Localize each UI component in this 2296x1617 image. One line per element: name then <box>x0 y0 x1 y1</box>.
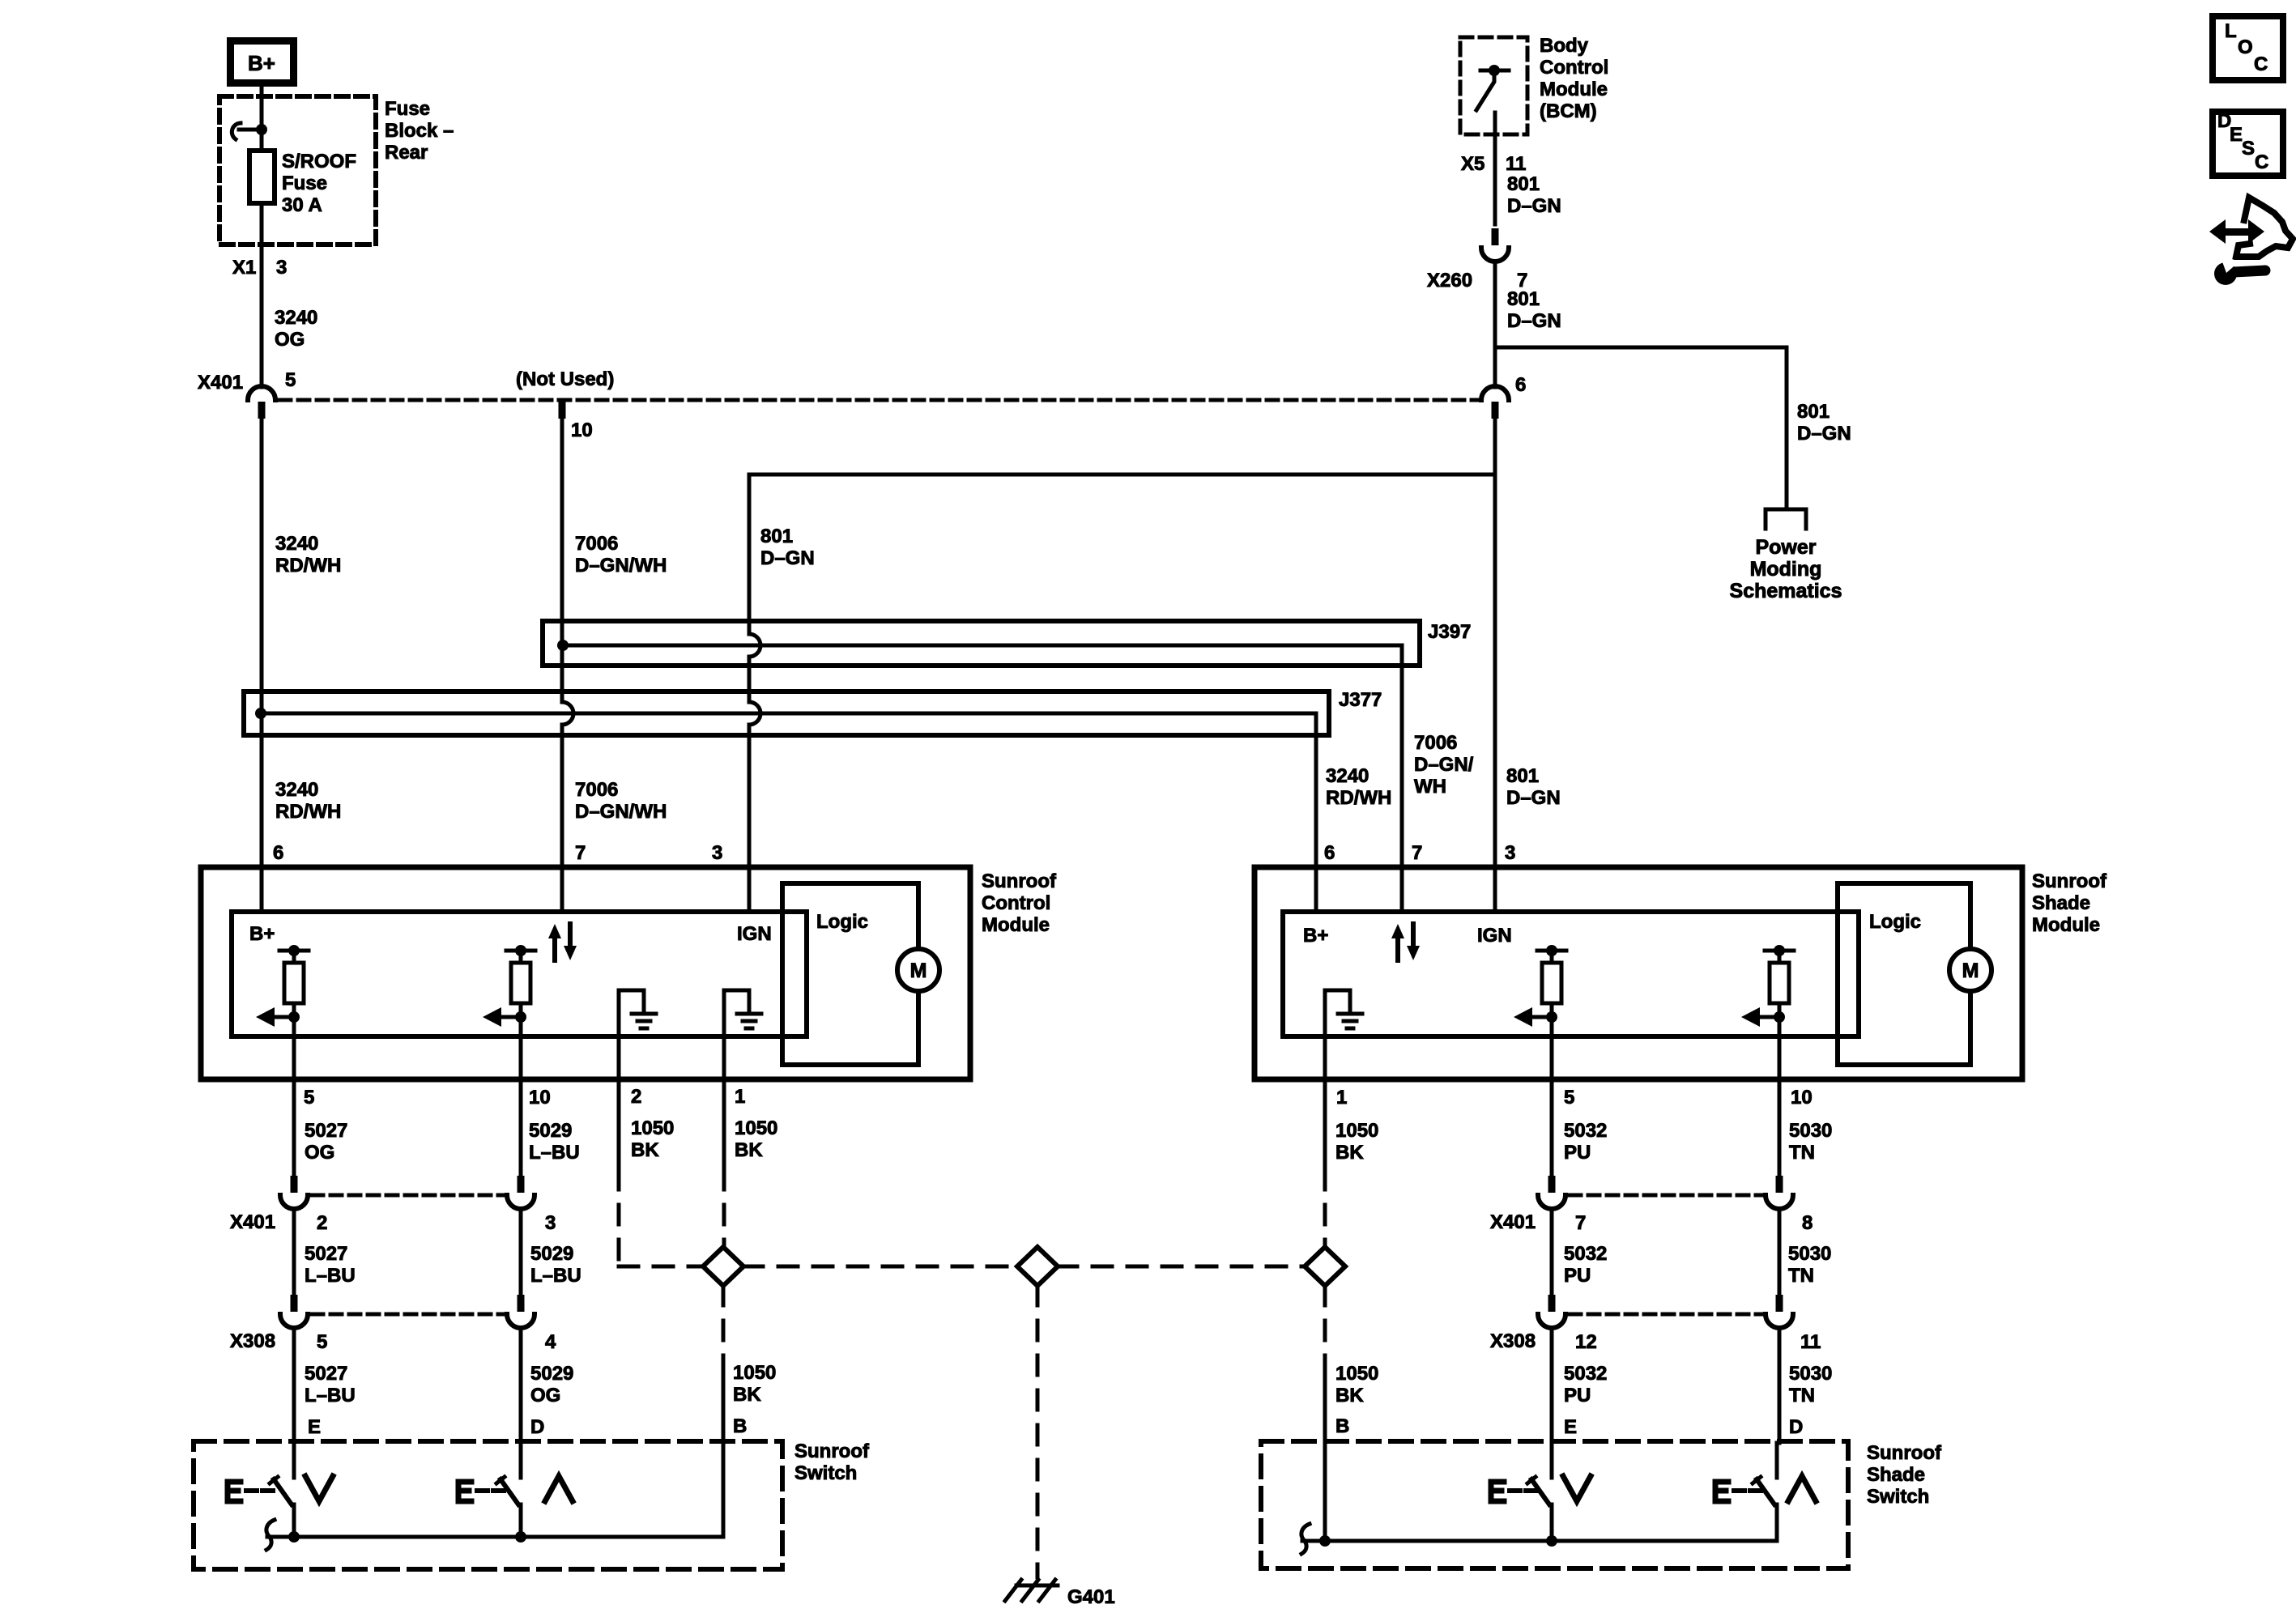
svg-text:D–GN/: D–GN/ <box>1414 754 1474 776</box>
svg-text:Power: Power <box>1755 536 1816 559</box>
connector X401 pin 2 terminal <box>280 1176 308 1209</box>
svg-text:10: 10 <box>529 1087 551 1108</box>
svg-text:801: 801 <box>1797 401 1830 423</box>
svg-text:RD/WH: RD/WH <box>1326 787 1391 809</box>
label circuit 3240 RD/WH (upper) <box>275 533 341 577</box>
pin 11 label <box>1800 1331 1821 1353</box>
svg-text:L–BU: L–BU <box>529 1142 580 1164</box>
svg-text:801: 801 <box>1506 765 1539 787</box>
wire 1050 BK splice to shade switch B <box>1323 1286 1327 1541</box>
double arrow icon <box>2209 219 2264 244</box>
svg-text:3240: 3240 <box>1326 765 1369 787</box>
svg-text:Rear: Rear <box>385 142 428 164</box>
svg-text:Block –: Block – <box>385 120 454 142</box>
Body Control Module dashed box <box>1460 37 1527 134</box>
DESC reference box <box>2213 110 2283 176</box>
connector X308 pin 12 terminal <box>1538 1295 1565 1328</box>
svg-text:E: E <box>1564 1416 1577 1438</box>
label B+ (shade module) <box>1303 925 1328 947</box>
dashed wire center splice to right splice <box>1058 1265 1305 1269</box>
svg-text:1: 1 <box>735 1086 745 1108</box>
label circuit 5029 L-BU <box>529 1120 580 1164</box>
label circuit 3240 RD/WH (lower left) <box>275 779 341 823</box>
label Fuse Block - Rear <box>385 98 454 164</box>
pin letter D (shade switch) <box>1789 1416 1803 1438</box>
svg-text:5029: 5029 <box>529 1120 572 1142</box>
svg-text:Sunroof: Sunroof <box>1867 1442 1942 1464</box>
wire branch to power moding schematics <box>1495 347 1787 509</box>
connector X308 dashed row (left) <box>312 1313 504 1317</box>
svg-text:OG: OG <box>530 1385 560 1406</box>
pin 5 label <box>285 369 296 391</box>
label circuit 5029 L-BU (X401-X308) <box>530 1243 581 1287</box>
connector X308 pin 11 terminal <box>1766 1295 1793 1328</box>
svg-text:M: M <box>910 960 927 982</box>
svg-text:Body: Body <box>1540 35 1589 57</box>
svg-text:B+: B+ <box>249 923 275 945</box>
svg-text:12: 12 <box>1575 1331 1597 1353</box>
label circuit 5032 PU (X401-X308) <box>1564 1243 1607 1287</box>
connector X401 pin 5 terminal <box>248 386 275 419</box>
svg-text:5030: 5030 <box>1789 1120 1832 1142</box>
shade switch up contact <box>1753 1443 1777 1541</box>
svg-text:7006: 7006 <box>575 779 618 801</box>
svg-text:Logic: Logic <box>816 911 868 933</box>
wrench icon <box>2214 255 2265 285</box>
svg-text:PU: PU <box>1564 1142 1591 1164</box>
svg-text:3240: 3240 <box>275 533 318 555</box>
svg-text:6: 6 <box>1515 374 1526 396</box>
pin 7 label (shade module) <box>1412 842 1422 864</box>
svg-text:OG: OG <box>305 1142 334 1164</box>
splice pack J397 <box>543 621 1420 912</box>
pin 11 label <box>1506 153 1526 175</box>
svg-text:O: O <box>2238 36 2253 58</box>
svg-text:Module: Module <box>2032 914 2100 936</box>
position sensor resistor pin 5 (shade module) <box>1514 945 1566 1027</box>
wire BCM X5 pin 11 (circuit 801 D-GN) <box>1493 113 1497 224</box>
svg-text:TN: TN <box>1788 1265 1814 1287</box>
svg-text:X401: X401 <box>1490 1211 1536 1233</box>
svg-text:X401: X401 <box>230 1211 275 1233</box>
wire X308-11 to shade switch D <box>1778 1328 1782 1443</box>
svg-text:D–GN: D–GN <box>1507 310 1561 332</box>
svg-text:C: C <box>2255 151 2268 173</box>
svg-text:Switch: Switch <box>1867 1486 1929 1508</box>
label circuit 7006 D-GN/WH (upper) <box>575 533 667 577</box>
svg-text:Sunroof: Sunroof <box>2032 870 2107 892</box>
connector end view icon (hand outline) <box>2236 198 2293 257</box>
svg-text:3240: 3240 <box>275 307 317 329</box>
shade switch common wire <box>1302 1535 1777 1547</box>
svg-text:B+: B+ <box>248 51 275 75</box>
svg-text:801: 801 <box>760 526 793 547</box>
svg-text:5027: 5027 <box>305 1120 347 1142</box>
svg-text:10: 10 <box>571 419 593 441</box>
svg-text:S/ROOF: S/ROOF <box>282 151 356 172</box>
svg-text:7006: 7006 <box>575 533 618 555</box>
up-down motor arrows (shade module) <box>1391 924 1420 960</box>
pin 6 label (control module) <box>273 842 283 864</box>
svg-text:X308: X308 <box>1490 1330 1536 1352</box>
svg-text:Control: Control <box>982 892 1050 914</box>
connector X308 dashed row (right) <box>1570 1313 1762 1317</box>
connector X401 pin 7 terminal <box>1538 1176 1565 1209</box>
connector X308 pin 5 terminal <box>280 1295 308 1328</box>
wire 1050 BK pin 1 (shade module ground) <box>1325 990 1378 1170</box>
svg-text:E: E <box>308 1416 321 1438</box>
svg-text:6: 6 <box>273 842 283 864</box>
label J377 <box>1339 689 1382 711</box>
svg-text:7006: 7006 <box>1414 732 1457 754</box>
svg-text:7: 7 <box>575 842 586 864</box>
label circuit 7006 D-GN/WH (lower left) <box>575 779 667 823</box>
label circuit 801 D-GN (below X260) <box>1507 288 1561 332</box>
wire X401-2 to X308-5 <box>292 1209 296 1295</box>
connector X401 pin 6 terminal <box>1481 386 1509 419</box>
sunroof switch common wire <box>267 1531 722 1543</box>
svg-text:(Not Used): (Not Used) <box>516 368 614 390</box>
svg-text:4: 4 <box>545 1331 556 1353</box>
svg-text:L–BU: L–BU <box>305 1265 356 1287</box>
sunroof switch down contact <box>270 1443 294 1537</box>
label Power Moding Schematics <box>1730 536 1842 602</box>
pin letter B (sunroof switch) <box>733 1415 747 1437</box>
position sensor resistor pin 5 (control module) <box>256 945 309 1027</box>
svg-text:5: 5 <box>317 1331 327 1353</box>
label J397 <box>1428 621 1471 643</box>
svg-text:6: 6 <box>1324 842 1335 864</box>
svg-text:BK: BK <box>733 1384 761 1406</box>
wire X308-5 to sunroof switch E <box>292 1328 296 1443</box>
wire X260 to X401 pin 6 <box>1493 262 1497 387</box>
wire 5030 TN pin 10 to X401-8 <box>1779 1017 1832 1176</box>
svg-text:S: S <box>2242 138 2255 160</box>
svg-text:2: 2 <box>631 1086 641 1108</box>
svg-text:5029: 5029 <box>530 1363 573 1385</box>
label circuit 801 D-GN (right module) <box>1506 765 1561 809</box>
svg-text:PU: PU <box>1564 1265 1591 1287</box>
sunroof motor M <box>897 949 939 991</box>
svg-text:5: 5 <box>285 369 296 391</box>
pin 6 label (shade module) <box>1324 842 1335 864</box>
svg-text:X5: X5 <box>1461 153 1485 175</box>
svg-text:Shade: Shade <box>1867 1464 1925 1486</box>
wire 7006 D-GN/WH from pin 10 stub to module pin 7 <box>562 419 573 912</box>
svg-text:D–GN: D–GN <box>1506 787 1561 809</box>
dashed wire left splice to center splice <box>743 1265 1017 1269</box>
label Sunroof Switch <box>794 1440 870 1484</box>
pin 3 label (control module) <box>712 842 722 864</box>
label circuit 801 D-GN (power moding branch) <box>1797 401 1851 445</box>
sunroof control module connector block <box>232 912 807 1036</box>
label S/ROOF Fuse 30 A <box>282 151 356 216</box>
label circuit 7006 D-GN/WH (right) <box>1414 732 1474 798</box>
label B+ (control module) <box>249 923 275 945</box>
wire 1050 BK pin 1 (control module ground) <box>724 990 777 1170</box>
wire 1050 BK splice to sunroof switch B <box>722 1286 726 1537</box>
pin 4 label (X308) <box>545 1331 556 1353</box>
svg-text:B: B <box>1335 1415 1349 1437</box>
svg-text:Module: Module <box>1540 79 1608 100</box>
svg-text:TN: TN <box>1789 1142 1815 1164</box>
fuse F - S/ROOF 30 A element <box>249 151 275 203</box>
BCM internal switch <box>1476 65 1509 110</box>
svg-text:3: 3 <box>1505 842 1515 864</box>
svg-text:X260: X260 <box>1427 270 1472 291</box>
label circuit 1050 BK (switch B left) <box>733 1362 776 1406</box>
pin 7 label (right) <box>1575 1212 1586 1234</box>
sunroof shade switch dashed box <box>1261 1441 1848 1568</box>
svg-text:TN: TN <box>1789 1385 1815 1406</box>
power node B+ (battery positive) box <box>231 41 294 83</box>
pin 7 label (X260) <box>1517 270 1527 291</box>
pin 3 label <box>545 1212 556 1234</box>
svg-text:3: 3 <box>545 1212 556 1234</box>
svg-text:BK: BK <box>735 1139 763 1161</box>
label circuit 1050 BK (switch B right) <box>1335 1363 1378 1406</box>
svg-text:5032: 5032 <box>1564 1243 1607 1265</box>
svg-text:D–GN/WH: D–GN/WH <box>575 555 667 577</box>
label circuit 5030 TN (to shade switch) <box>1789 1363 1832 1406</box>
svg-text:5: 5 <box>1564 1087 1574 1108</box>
label Body Control Module (BCM) <box>1540 35 1608 122</box>
switch actuator E link (shade down) <box>1491 1482 1536 1501</box>
svg-text:Control: Control <box>1540 57 1608 79</box>
svg-text:Fuse: Fuse <box>385 98 430 120</box>
svg-text:5027: 5027 <box>305 1243 347 1265</box>
wire 801 D-GN down to sunroof shade module pin 3 <box>1493 419 1497 912</box>
up chevron (shade switch) <box>1788 1476 1816 1501</box>
svg-text:801: 801 <box>1507 173 1540 195</box>
svg-text:D–GN: D–GN <box>1797 423 1851 445</box>
label Logic (control module) <box>816 911 868 933</box>
pin 5 label (X308) <box>317 1331 327 1353</box>
svg-text:M: M <box>1962 960 1979 982</box>
wire 5029 L-BU pin 10 to X401-3 <box>519 1017 523 1176</box>
label circuit 3240 RD/WH (right) <box>1326 765 1391 809</box>
wire X308-4 to sunroof switch D <box>519 1328 523 1443</box>
label G401 <box>1067 1586 1115 1608</box>
label Sunroof Shade Switch <box>1867 1442 1942 1508</box>
svg-text:3: 3 <box>712 842 722 864</box>
connector X401 dashed row (left) <box>312 1194 504 1198</box>
svg-text:5032: 5032 <box>1564 1363 1607 1385</box>
up chevron (sunroof switch) <box>545 1476 573 1501</box>
svg-text:L–BU: L–BU <box>530 1265 581 1287</box>
svg-text:5032: 5032 <box>1564 1120 1607 1142</box>
pin 3 label <box>276 257 287 279</box>
svg-text:B: B <box>733 1415 747 1437</box>
wire 801 D-GN left branch down to sunroof control module pin 3 <box>749 474 760 912</box>
internal ground pin 2 (control module) <box>619 990 656 1036</box>
svg-text:(BCM): (BCM) <box>1540 100 1597 122</box>
down chevron (shade switch) <box>1563 1476 1591 1501</box>
wire 801 D-GN horizontal to left branch <box>749 473 1495 477</box>
connector X401 pin 3 terminal <box>507 1176 535 1209</box>
wire B+ to fuse clip <box>260 87 264 151</box>
svg-text:C: C <box>2254 53 2268 75</box>
label X401 (right row) <box>1490 1211 1536 1233</box>
ground splice (right diamond) <box>1305 1247 1345 1286</box>
ground splice (left diamond) <box>703 1247 743 1286</box>
label circuit 5029 OG (to switch) <box>530 1363 573 1406</box>
svg-text:X308: X308 <box>230 1330 275 1352</box>
sunroof control module outer box <box>201 867 970 1079</box>
svg-text:D–GN/WH: D–GN/WH <box>575 801 667 823</box>
svg-text:5: 5 <box>304 1087 314 1108</box>
logic block (shade module) <box>1838 883 1970 1065</box>
wire 3240 RD/WH from X401-5 to module pin 6 <box>260 419 264 912</box>
wire 1050 BK pin 2 (control module ground) <box>619 990 674 1170</box>
position sensor resistor pin 10 (control module) <box>483 945 535 1027</box>
ground splice (center diamond) <box>1017 1247 1058 1286</box>
svg-text:IGN: IGN <box>737 923 772 945</box>
label IGN (shade module) <box>1477 925 1512 947</box>
svg-text:J397: J397 <box>1428 621 1471 643</box>
svg-text:11: 11 <box>1800 1331 1821 1353</box>
wire X308-12 to shade switch E <box>1550 1328 1554 1443</box>
svg-text:X401: X401 <box>198 372 243 394</box>
label X401 <box>198 372 243 394</box>
label circuit 5030 TN (X401-X308) <box>1788 1243 1831 1287</box>
svg-text:BK: BK <box>631 1139 659 1161</box>
svg-text:5030: 5030 <box>1789 1363 1832 1385</box>
pin 5 number (below module) <box>304 1087 314 1108</box>
connector X401 pin 8 terminal <box>1766 1176 1793 1209</box>
label X1 <box>232 257 256 279</box>
dashed ground wire from control module pin 2 to splice <box>619 1170 701 1266</box>
svg-text:10: 10 <box>1791 1087 1813 1108</box>
connector X401 dashed row (right) <box>1570 1194 1762 1198</box>
svg-text:1050: 1050 <box>733 1362 776 1384</box>
pin letter D (sunroof switch) <box>530 1416 544 1438</box>
shade switch detent hook <box>1301 1524 1310 1554</box>
svg-text:OG: OG <box>275 329 305 351</box>
ground G401 symbol <box>1005 1580 1058 1601</box>
wire X401-8 to X308-11 <box>1778 1209 1782 1295</box>
off-page reference to Power Moding Schematics <box>1766 509 1806 529</box>
pin 12 label <box>1575 1331 1597 1353</box>
label Sunroof Shade Module <box>2032 870 2107 936</box>
switch actuator E link (down) <box>228 1482 273 1501</box>
label circuit 801 D-GN (above X260) <box>1507 173 1561 217</box>
svg-text:3: 3 <box>276 257 287 279</box>
svg-text:1050: 1050 <box>735 1117 777 1139</box>
svg-text:L: L <box>2225 20 2237 42</box>
svg-text:30 A: 30 A <box>282 194 322 216</box>
svg-text:D: D <box>1789 1416 1803 1438</box>
svg-text:Shade: Shade <box>2032 892 2090 914</box>
svg-text:E: E <box>2230 124 2243 146</box>
svg-text:Schematics: Schematics <box>1730 580 1842 602</box>
svg-text:G401: G401 <box>1067 1586 1115 1608</box>
wire fuse to connector X401 pin 5 (circuit 3240 OG) <box>260 203 264 387</box>
switch actuator E link (up) <box>458 1482 504 1501</box>
svg-text:X1: X1 <box>232 257 256 279</box>
label circuit 5032 PU (to shade switch) <box>1564 1363 1607 1406</box>
fuse block rear dashed box <box>219 96 376 245</box>
pin letter E (shade switch) <box>1564 1416 1577 1438</box>
svg-text:RD/WH: RD/WH <box>275 801 341 823</box>
pin letter E (sunroof switch) <box>308 1416 321 1438</box>
svg-text:D–GN: D–GN <box>1507 195 1561 217</box>
svg-text:1: 1 <box>1336 1087 1347 1108</box>
shade motor M <box>1949 949 1991 991</box>
svg-text:Sunroof: Sunroof <box>794 1440 870 1462</box>
svg-text:D: D <box>530 1416 544 1438</box>
svg-text:1050: 1050 <box>1335 1363 1378 1385</box>
dashed wire from shade module pin 1 to right splice <box>1323 1170 1327 1245</box>
svg-text:BK: BK <box>1335 1142 1364 1164</box>
label Logic (shade module) <box>1869 911 1921 933</box>
label circuit 3240 OG <box>275 307 317 351</box>
svg-text:J377: J377 <box>1339 689 1382 711</box>
svg-text:1050: 1050 <box>631 1117 674 1139</box>
shade switch down contact <box>1527 1443 1552 1541</box>
label circuit 5027 L-BU (to switch) <box>305 1363 356 1406</box>
svg-text:3240: 3240 <box>275 779 318 801</box>
svg-text:Sunroof: Sunroof <box>982 870 1057 892</box>
pin 3 label (shade module) <box>1505 842 1515 864</box>
up-down motor arrows (control module) <box>548 924 577 960</box>
sunroof switch dashed box <box>194 1441 782 1569</box>
svg-text:B+: B+ <box>1303 925 1328 947</box>
svg-text:Module: Module <box>982 914 1050 936</box>
wire 5027 OG pin 5 to X401-2 <box>292 1017 296 1176</box>
svg-text:WH: WH <box>1414 776 1446 798</box>
LOC reference box <box>2213 16 2283 80</box>
sunroof switch up contact <box>496 1443 521 1537</box>
label X260 <box>1427 270 1472 291</box>
fuse holder clip <box>232 123 267 139</box>
svg-text:2: 2 <box>317 1212 327 1234</box>
svg-text:IGN: IGN <box>1477 925 1512 947</box>
svg-text:7: 7 <box>1575 1212 1586 1234</box>
connector X308 pin 4 terminal <box>507 1295 535 1328</box>
svg-text:PU: PU <box>1564 1385 1591 1406</box>
not-used dashed row of connector X401 <box>279 368 1480 400</box>
svg-text:8: 8 <box>1802 1212 1813 1234</box>
svg-text:5027: 5027 <box>305 1363 347 1385</box>
wire X401-3 to X308-4 <box>519 1209 523 1295</box>
logic block (control module) <box>782 883 918 1065</box>
position sensor resistor pin 10 (shade module) <box>1741 945 1794 1027</box>
svg-text:L–BU: L–BU <box>305 1385 356 1406</box>
pin 6 label (X401) <box>1515 374 1526 396</box>
label X401 (bottom left row) <box>230 1211 275 1233</box>
connector X401 pin 10 stub (not used) <box>559 402 593 441</box>
label circuit 5027 L-BU (X401-X308) <box>305 1243 356 1287</box>
pin 8 label (right) <box>1802 1212 1813 1234</box>
wire X401-7 to X308-12 <box>1550 1209 1554 1295</box>
label circuit 801 D-GN (left branch) <box>760 526 815 569</box>
svg-text:7: 7 <box>1412 842 1422 864</box>
svg-text:801: 801 <box>1507 288 1540 310</box>
svg-text:11: 11 <box>1506 153 1526 175</box>
svg-text:Logic: Logic <box>1869 911 1921 933</box>
dashed wire center splice to ground G401 <box>1036 1286 1040 1577</box>
svg-text:D–GN: D–GN <box>760 547 815 569</box>
pin 10 number (below module) <box>529 1087 551 1108</box>
svg-text:RD/WH: RD/WH <box>275 555 341 577</box>
sunroof switch detent hook <box>266 1520 275 1550</box>
switch actuator E link (shade up) <box>1715 1482 1761 1501</box>
down chevron (sunroof switch) <box>305 1476 333 1501</box>
sunroof shade module outer box <box>1254 867 2022 1079</box>
dashed ground wire from control module pin 1 to splice <box>722 1170 726 1245</box>
svg-text:1050: 1050 <box>1335 1120 1378 1142</box>
